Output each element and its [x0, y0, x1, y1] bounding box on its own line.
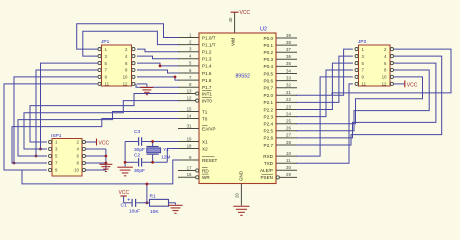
svg-text:10: 10	[286, 151, 291, 156]
pin 3 P1.2 (left)	[178, 51, 199, 53]
wire cap rail left	[124, 142, 126, 163]
pin 33 P0.6 (right)	[276, 80, 297, 82]
ground (R1)	[175, 203, 177, 205]
wire JP2.4 loop to P2.7	[296, 56, 442, 145]
JP1 pin 12	[132, 82, 135, 85]
JP2 pin 6	[390, 62, 393, 65]
pin 4 P1.3 (left)	[178, 58, 199, 60]
ISP1 pin 5	[49, 154, 52, 157]
JP1 pin 7	[98, 68, 101, 71]
svg-text:P2.7: P2.7	[264, 143, 274, 148]
JP2 pin 11	[355, 82, 358, 85]
svg-text:PSEN: PSEN	[260, 175, 273, 180]
pin 18 X2 (left)	[178, 148, 199, 150]
svg-text:T1: T1	[202, 109, 208, 114]
ground (U2 pin 20)	[233, 205, 249, 207]
svg-text:89S52: 89S52	[236, 74, 251, 80]
wire JP1.10 to P1.6	[137, 77, 179, 80]
svg-text:31: 31	[187, 123, 192, 128]
wire JP2.10 loop to P2.4	[296, 77, 423, 124]
svg-text:T0: T0	[202, 116, 208, 121]
wire JP1.2 to P1.2	[137, 49, 179, 52]
svg-text:28: 28	[286, 140, 291, 145]
JP1 pin 6	[132, 62, 135, 65]
pin 23 P2.2 (right)	[276, 109, 297, 111]
JP1 pin 4	[132, 55, 135, 58]
svg-text:P1.2: P1.2	[202, 50, 212, 55]
svg-text:12: 12	[123, 82, 128, 87]
wire JP2.1 to P2.0	[296, 49, 353, 95]
ISP1 pin 3	[49, 147, 52, 150]
svg-text:WR: WR	[202, 175, 210, 180]
pin 19 X1 (left)	[178, 141, 199, 143]
JP1 pin 5	[98, 62, 101, 65]
JP1 pin 10	[132, 75, 135, 78]
svg-text:P1.4: P1.4	[202, 64, 212, 69]
svg-text:P2.0: P2.0	[264, 93, 274, 98]
svg-text:P0.3: P0.3	[264, 57, 274, 62]
power VCC (JP2 pin 12)	[394, 83, 405, 85]
pin 25 P2.4 (right)	[276, 123, 297, 125]
pin 29 PSEN (right)	[279, 176, 297, 178]
svg-text:Vdd: Vdd	[231, 37, 236, 46]
wire T1 row bus3 to ISP1.5	[18, 112, 179, 157]
pin 38 P0.1 (right)	[276, 44, 297, 46]
node junction on P1.6 wire	[174, 76, 177, 79]
power VCC (ISP1 pin 2)	[86, 141, 97, 143]
svg-text:P0.2: P0.2	[264, 50, 274, 55]
svg-text:30pF: 30pF	[134, 168, 145, 174]
svg-text:X1: X1	[202, 139, 208, 144]
JP2 pin 5	[355, 62, 358, 65]
ground (ISP1)	[99, 163, 112, 165]
svg-text:20: 20	[234, 193, 239, 198]
IC U2 89S52 microcontroller body	[199, 33, 276, 184]
wire loop JP1.3 to P1.1	[83, 31, 179, 56]
connector JP2 body	[359, 45, 391, 86]
svg-text:R1: R1	[150, 194, 156, 200]
svg-text:30pF: 30pF	[134, 147, 145, 153]
svg-text:32: 32	[286, 83, 291, 88]
crystal Y1 12M	[152, 142, 154, 147]
svg-text:11: 11	[105, 82, 110, 87]
svg-text:P0.1: P0.1	[264, 43, 274, 48]
wire JP1.6 to P1.4	[137, 63, 179, 66]
ISP1 pin 6	[82, 154, 85, 157]
svg-text:VCC: VCC	[407, 82, 418, 88]
svg-text:TXD: TXD	[264, 161, 274, 166]
wire JP2.11 to TXD	[296, 84, 353, 163]
JP1 pin 8	[132, 68, 135, 71]
svg-text:13: 13	[187, 88, 192, 93]
wire X1 row with C3	[125, 141, 138, 143]
power VCC (U2 pin 40)	[231, 11, 239, 13]
svg-text:16: 16	[187, 172, 192, 177]
wire JP2.2 loop to P2.0 far right	[332, 49, 451, 95]
pin 35 P0.4 (right)	[276, 65, 297, 67]
svg-text:35: 35	[286, 61, 291, 66]
node junction on P1.4 wire	[159, 65, 162, 68]
svg-text:Y1: Y1	[163, 147, 169, 153]
wire INT0 row bus2 to ISP1.3	[24, 101, 179, 149]
svg-text:17: 17	[187, 165, 192, 170]
wire ISP1.9 to reset rail	[22, 160, 179, 184]
pin 16 WR (left)	[178, 176, 196, 178]
wire JP1.5 down to ISP1.3	[41, 63, 98, 149]
JP1 pin 3	[98, 55, 101, 58]
ISP1 pin 7	[49, 161, 52, 164]
svg-text:10: 10	[382, 75, 387, 80]
connector ISP1 body	[52, 139, 82, 177]
svg-text:P2.4: P2.4	[264, 122, 274, 127]
pin 14 T0 (left)	[178, 118, 199, 120]
ISP1 pin 9	[49, 168, 52, 171]
svg-text:VCC: VCC	[240, 10, 251, 16]
svg-text:VCC: VCC	[99, 141, 110, 147]
ISP1 pin 8	[82, 161, 85, 164]
svg-text:JP2: JP2	[358, 39, 367, 45]
svg-text:21: 21	[286, 90, 291, 95]
svg-text:10: 10	[123, 75, 128, 80]
JP2 pin 7	[355, 68, 358, 71]
pin 26 P2.5 (right)	[276, 130, 297, 132]
svg-text:29: 29	[286, 172, 291, 177]
svg-text:22: 22	[286, 97, 291, 102]
wire INT1 row bus1 to ISP1.1	[30, 94, 179, 143]
svg-text:EA/VP: EA/VP	[202, 126, 216, 131]
pin 30 ALE/P (right)	[276, 169, 297, 171]
svg-text:JP1: JP1	[101, 39, 110, 45]
pin 21 P2.0 (right)	[276, 94, 297, 96]
svg-text:33: 33	[286, 75, 291, 80]
pin 15 T1 (left)	[178, 111, 199, 113]
pin 2 P1.1/T (left)	[178, 44, 199, 46]
svg-text:P2.3: P2.3	[264, 114, 274, 119]
svg-text:10K: 10K	[150, 209, 159, 215]
pin 20 GND stub	[240, 184, 242, 206]
JP1 pin 11	[98, 82, 101, 85]
pin 13 INT1 (left)	[178, 93, 196, 95]
wire JP1.4 to P1.3	[137, 56, 179, 59]
wire JP2.9 to RXD	[296, 77, 353, 156]
svg-text:C3: C3	[134, 129, 140, 135]
JP2 pin 9	[355, 75, 358, 78]
pin 1 P1.0/T (left)	[178, 37, 199, 39]
svg-text:P0.6: P0.6	[264, 78, 274, 83]
JP2 pin 1	[355, 48, 358, 51]
pin 31 EA/VP (left)	[178, 128, 199, 130]
pin 6 P1.5 (left)	[178, 72, 199, 74]
svg-text:24: 24	[286, 111, 291, 116]
svg-text:12: 12	[187, 95, 192, 100]
resistor R1 10K	[147, 202, 150, 204]
wire JP1.9 down to ISP1.7	[14, 77, 98, 163]
svg-text:10: 10	[74, 168, 79, 173]
svg-text:37: 37	[286, 47, 291, 52]
svg-text:P1.1/T: P1.1/T	[202, 42, 216, 47]
wire JP1.12 to ground	[137, 83, 147, 85]
ground (JP1 pin 12)	[140, 87, 153, 89]
ISP1 pin 10	[82, 168, 85, 171]
pin 11 TXD (right)	[276, 162, 297, 164]
svg-text:VCC: VCC	[119, 190, 130, 196]
svg-text:26: 26	[286, 126, 291, 131]
svg-text:23: 23	[286, 104, 291, 109]
ISP1 pin 4	[82, 147, 85, 150]
svg-text:C2: C2	[134, 153, 140, 159]
svg-text:P2.5: P2.5	[264, 129, 274, 134]
svg-text:ALE/P: ALE/P	[260, 168, 273, 173]
svg-text:P0.0: P0.0	[264, 36, 274, 41]
svg-text:P0.5: P0.5	[264, 71, 274, 76]
svg-text:25: 25	[286, 119, 291, 124]
svg-text:P1.0/T: P1.0/T	[202, 35, 216, 40]
capacitor C1 10uF electrolytic	[124, 202, 132, 204]
svg-text:34: 34	[286, 68, 291, 73]
svg-text:P1.7: P1.7	[202, 85, 212, 90]
svg-text:38: 38	[286, 40, 291, 45]
wire loop JP1.1 to P1.0	[77, 24, 179, 49]
svg-text:INT0: INT0	[202, 98, 212, 103]
JP2 pin 12	[390, 82, 393, 85]
pin 8 P1.7 (left)	[178, 86, 199, 88]
ISP1 pin 1	[49, 140, 52, 143]
wire JP2.6 loop to P2.6	[296, 63, 436, 138]
svg-text:P1.6: P1.6	[202, 78, 212, 83]
wire P1.7 row	[136, 84, 179, 87]
wire JP1.8 to P1.5	[137, 70, 179, 73]
svg-text:39: 39	[286, 33, 291, 38]
pin 10 RXD (right)	[276, 155, 297, 157]
svg-text:12M: 12M	[161, 155, 170, 161]
pin 39 P0.0 (right)	[276, 37, 297, 39]
connector JP1 body	[102, 45, 132, 86]
svg-text:P2.1: P2.1	[264, 100, 274, 105]
pin 32 P0.7 (right)	[276, 87, 297, 89]
svg-text:RXD: RXD	[263, 154, 273, 159]
svg-text:P0.7: P0.7	[264, 86, 274, 91]
svg-text:18: 18	[187, 143, 192, 148]
wire JP1.7 down to ISP1.5	[36, 70, 98, 156]
pin 17 RD (left)	[178, 170, 196, 172]
wire ISP1 pins 4,6,8,10 to ground	[86, 148, 106, 150]
svg-text:12: 12	[382, 82, 387, 87]
svg-text:15: 15	[187, 106, 192, 111]
svg-text:14: 14	[187, 113, 192, 118]
capacitor C2 30pF	[138, 158, 140, 166]
wire reset junction branch	[146, 184, 148, 203]
svg-text:10uF: 10uF	[129, 209, 140, 215]
svg-text:RD: RD	[202, 168, 209, 173]
JP2 pin 2	[390, 48, 393, 51]
pin 22 P2.1 (right)	[276, 101, 297, 103]
svg-text:P1.5: P1.5	[202, 71, 212, 76]
JP2 pin 4	[390, 55, 393, 58]
capacitor C3 30pF	[138, 137, 140, 145]
svg-text:P2.6: P2.6	[264, 136, 274, 141]
svg-text:27: 27	[286, 133, 291, 138]
JP2 pin 10	[390, 75, 393, 78]
pin 7 P1.6 (left)	[178, 79, 199, 81]
pin 40 Vdd stub	[234, 12, 236, 33]
pin 28 P2.7 (right)	[276, 144, 297, 146]
JP1 pin 9	[98, 75, 101, 78]
wire JP2.3 to P2.1	[296, 56, 353, 102]
wire X2 row with C2	[125, 161, 138, 163]
svg-text:11: 11	[362, 82, 367, 87]
svg-text:GND: GND	[239, 170, 244, 181]
pin 27 P2.6 (right)	[276, 137, 297, 139]
pin 37 P0.2 (right)	[276, 51, 297, 53]
svg-text:RESET: RESET	[202, 158, 218, 163]
svg-text:C1: C1	[121, 202, 127, 208]
svg-text:INT1: INT1	[202, 91, 212, 96]
wire JP2.7 to P2.3	[296, 70, 353, 117]
wire JP1.11 down to ISP1.9 rail	[4, 84, 98, 170]
svg-text:X2: X2	[202, 146, 208, 151]
svg-text:P2.2: P2.2	[264, 107, 274, 112]
svg-text:U2: U2	[260, 27, 267, 33]
pin 24 P2.3 (right)	[276, 116, 297, 118]
pin 36 P0.3 (right)	[276, 58, 297, 60]
svg-text:+: +	[127, 197, 130, 203]
svg-text:11: 11	[286, 158, 291, 163]
pin 5 P1.4 (left)	[178, 65, 199, 67]
wire JP2.8 loop to P2.5	[296, 70, 429, 131]
JP1 pin 2	[132, 48, 135, 51]
wire JP2.5 to P2.2	[296, 63, 353, 109]
wire T0 row bus4 to ISP1.7	[12, 119, 179, 164]
svg-text:ISP1: ISP1	[51, 133, 62, 139]
ground (crystal caps)	[124, 162, 126, 166]
svg-text:P1.3: P1.3	[202, 57, 212, 62]
svg-text:P0.4: P0.4	[264, 64, 274, 69]
pin 12 INT0 (left)	[178, 100, 196, 102]
svg-text:19: 19	[187, 136, 192, 141]
svg-text:30: 30	[286, 165, 291, 170]
ISP1 pin 2	[82, 140, 85, 143]
JP2 pin 3	[355, 55, 358, 58]
pin 9 RESET (left)	[178, 159, 199, 161]
svg-text:40: 40	[228, 17, 233, 22]
JP1 pin 1	[98, 48, 101, 51]
svg-text:36: 36	[286, 54, 291, 59]
pin 34 P0.5 (right)	[276, 73, 297, 75]
JP2 pin 8	[390, 68, 393, 71]
